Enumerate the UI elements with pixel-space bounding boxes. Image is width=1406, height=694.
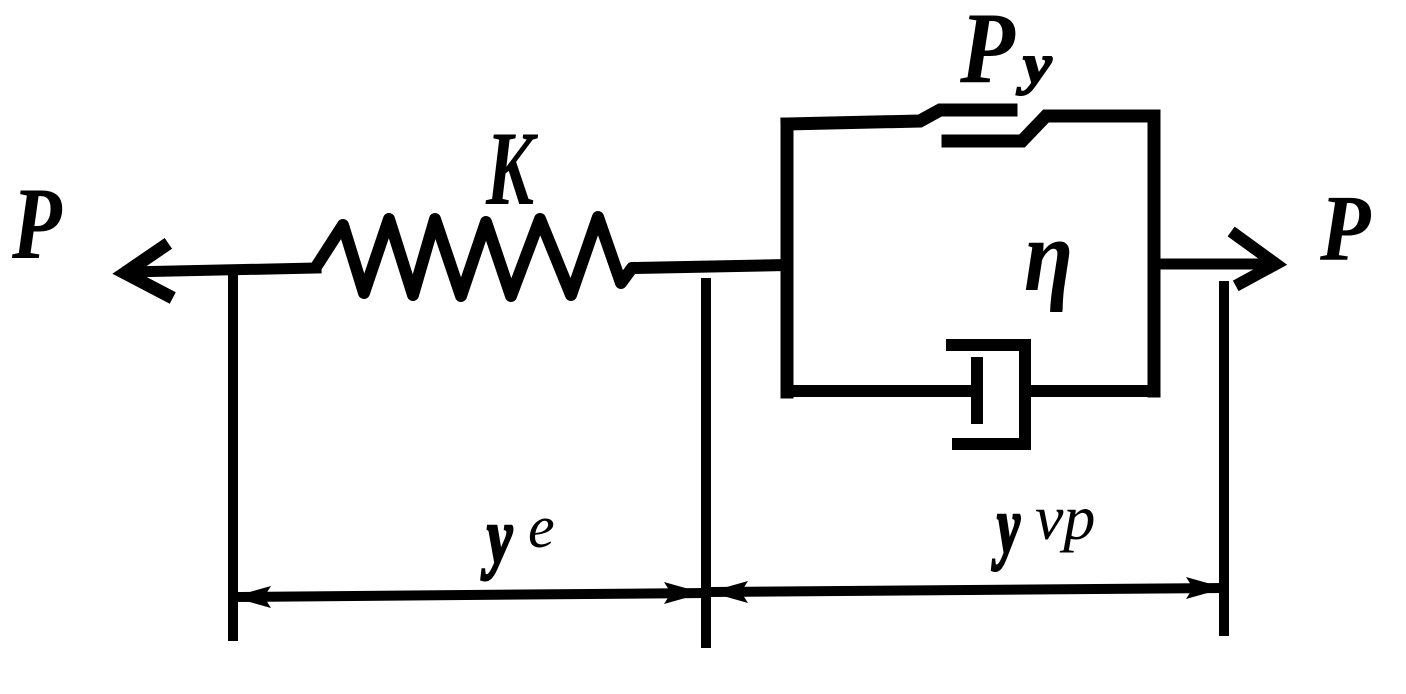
svg-text:K: K (485, 109, 538, 227)
svg-text:P: P (11, 167, 63, 281)
svg-text:vp: vp (1035, 482, 1095, 553)
svg-text:e: e (528, 494, 555, 560)
svg-text:P: P (1319, 177, 1371, 281)
svg-text:y: y (992, 480, 1021, 571)
svg-text:y: y (1016, 34, 1052, 96)
svg-text:P: P (959, 0, 1016, 104)
svg-text:y: y (481, 493, 512, 580)
svg-text:η: η (1024, 198, 1073, 312)
